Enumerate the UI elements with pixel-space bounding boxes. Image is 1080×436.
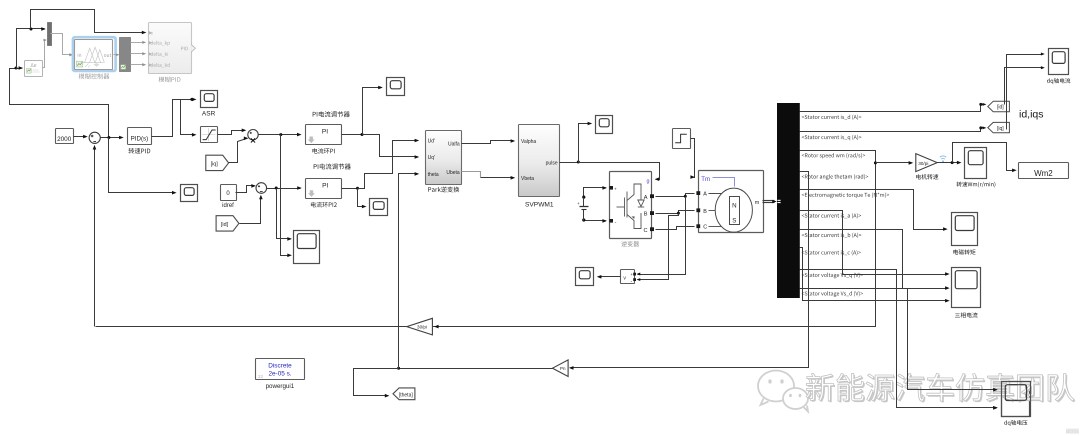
wire PI2 output branch to small scope (342, 187, 367, 209)
svg-text:g: g (647, 178, 650, 184)
voltage measurement block v+- (621, 270, 637, 286)
svg-text:2e-05 s.: 2e-05 s. (268, 371, 291, 378)
wire PI q output: branch up to scope (342, 86, 383, 136)
bus label Stator current is_b (802, 233, 862, 238)
bus label Stator current is_d (802, 115, 862, 120)
bus label Electromagnetic torque Te (802, 192, 889, 198)
subsystem 模糊PID (fuzzy PID, faded) (149, 23, 196, 74)
label 逆变器 (621, 241, 639, 247)
scope 转速Wm(r/min) (965, 148, 987, 179)
scope dq轴电压 (1002, 382, 1030, 417)
svg-text:Ubeta: Ubeta (446, 170, 460, 176)
scope ASR (201, 91, 218, 108)
svg-text:v: v (623, 276, 626, 282)
wire error signal to fuzzy section (from speed-error junction, up and left) (10, 66, 109, 137)
svg-text:A: A (703, 192, 707, 198)
svg-text:+: + (630, 272, 633, 277)
svg-text:Vbeta: Vbeta (521, 176, 534, 182)
wire [id] to sum S3 bottom input (240, 195, 263, 224)
watermark text 新能源汽车仿真团队 (806, 373, 1075, 402)
block delta-e (de computation) (25, 61, 43, 77)
wire wm row to gain 30/pi and down to speed feedback (96, 151, 914, 327)
svg-text:[iq]: [iq] (211, 161, 219, 167)
gain 30/pi (rad/s to rpm, right-pointing) (916, 154, 937, 172)
wire saturation to sum S2 (218, 129, 247, 135)
watermark WeChat logo (758, 371, 808, 412)
wire inverter A to motor A with tap (656, 194, 695, 198)
svg-text:PI: PI (322, 182, 328, 189)
wire overlay Vs_q/Vs_d over watermark (897, 367, 1031, 417)
svg-text:2000: 2000 (57, 136, 72, 143)
sum S3 (d-current error) (256, 183, 267, 194)
svg-text:Pn: Pn (560, 366, 566, 371)
gain 30/pi (left-pointing, feedback path) (407, 318, 439, 335)
label 三相电流 (955, 312, 978, 317)
bus label Stator current is_c (802, 250, 861, 255)
label Park逆变换 (428, 187, 459, 193)
wire PI q output to Park Uq input (363, 135, 420, 159)
powergui block Discrete 2e-05 s. (256, 359, 305, 380)
svg-text:30/pi: 30/pi (417, 324, 427, 329)
inverter block 逆变器 (universal bridge) (609, 172, 654, 239)
svg-text:powergui1: powergui1 (266, 383, 295, 390)
svg-text:Ud': Ud' (428, 139, 435, 145)
wire fuzzy out to demux (114, 53, 120, 56)
label powergui1 (266, 383, 295, 390)
from tag [id] (left) (216, 216, 239, 231)
svg-text:idref: idref (222, 203, 234, 209)
scope (Ud output) (370, 199, 388, 216)
goto tag [id] (top right) (988, 101, 1010, 111)
wire S2 output to PI (current PI q) (259, 133, 302, 137)
svg-text:30/pi: 30/pi (918, 161, 928, 166)
wire inverter B to motor B with tap (656, 211, 695, 215)
sum S2 (q-current error) (248, 130, 258, 143)
wire [iq] to sum S2 minus input (229, 137, 249, 163)
svg-text:C: C (643, 228, 647, 234)
svg-text:ASR: ASR (202, 110, 216, 117)
bus label Stator voltage Vs_d (802, 291, 863, 297)
to-workspace block Wm2 (1019, 163, 1069, 179)
wire demux to delta_kd (131, 63, 147, 66)
constant 0 idref (221, 185, 237, 201)
svg-text:id,iqs: id,iqs (1019, 109, 1044, 121)
wire mux output to fuzzy controller in (51, 34, 74, 57)
goto tag [iq] (top right) (988, 122, 1010, 132)
wire speed feedback up into sum S1 (93, 145, 97, 327)
PMSM motor block (696, 171, 763, 233)
svg-text:Valpha: Valpha (521, 139, 536, 145)
label idref (222, 203, 234, 209)
wire id branch up to dq current scope input 2 (1005, 66, 1045, 104)
wire PI2 output to Park Ud input (358, 139, 420, 189)
block Park逆变换 (inverse Park transform) (426, 131, 462, 185)
wire is_a to three-phase scope input 1 (800, 211, 950, 276)
svg-text:B: B (703, 209, 707, 215)
bus label Stator voltage Vs_q (802, 273, 863, 279)
wire iq branch up to dq current scope input 1 (1007, 52, 1045, 129)
scope 电磁转矩 (952, 213, 978, 246)
wire branch down to saturation (181, 100, 197, 137)
DC voltage source (battery) (577, 186, 607, 223)
label 电机转速 (916, 174, 938, 179)
svg-text:B: B (644, 212, 648, 218)
wire S1 error branch down to error scope (109, 138, 177, 195)
wire thetam row down to gain Pn (569, 172, 809, 370)
sum S1 (speed error) (89, 132, 100, 143)
wire Ubeta to Vbeta (gray then black) (462, 172, 516, 180)
wire motor m output (bus) to bus selector (763, 200, 777, 204)
scope (PWM pulses) (596, 116, 613, 134)
wire voltage measurement to scope (597, 275, 621, 279)
title PI电流调节器 (q loop) (313, 111, 350, 117)
scope (dual input, current errors) (294, 231, 320, 264)
label 电流环PI2 (311, 202, 337, 208)
scope (Uq output) (387, 78, 405, 96)
wire Vs_q down to dq voltage scope input 2 (800, 270, 998, 410)
label 电流环PI (312, 148, 334, 154)
wire step to motor Tm (690, 139, 695, 179)
label dq轴电流 (1047, 78, 1070, 84)
svg-text:SVPWM1: SVPWM1 (525, 201, 554, 208)
label 电磁转矩 (953, 249, 975, 254)
bus label Rotor speed wm (802, 153, 865, 159)
wire S1 output to PID(s) (101, 136, 124, 140)
svg-text:PID(s): PID(s) (131, 136, 149, 143)
block PID(s) 转速PID (128, 128, 152, 145)
svg-text:+: + (614, 187, 617, 192)
corner watermark fragment (1066, 429, 1079, 434)
svg-text:pulse: pulse (546, 161, 558, 167)
title PI电流调节器 (d loop) (314, 164, 351, 170)
svg-text:Uq': Uq' (428, 155, 435, 161)
svg-text:+: + (577, 201, 580, 206)
svg-text:theta: theta (428, 172, 439, 178)
svg-text:Discrete: Discrete (268, 363, 292, 370)
svg-text:PI: PI (322, 129, 328, 136)
svg-text:Ualfa: Ualfa (448, 142, 460, 148)
text id,iqs (1019, 109, 1044, 121)
label SVPWM1 (525, 201, 554, 208)
wire pulse output, branch to PWM scope (560, 122, 593, 164)
wire branch over scope to Wm2 (953, 143, 1017, 173)
svg-text:m: m (755, 200, 760, 206)
label 模糊控制器 (79, 73, 110, 79)
wire pulse to inverter gate g (579, 163, 660, 182)
wire Pn output left, branch up to Park theta (397, 172, 552, 370)
wire inverter C to motor C (656, 227, 695, 230)
block PI 电流环PI (q-axis current PI) (306, 125, 342, 145)
wire phase B tap down to voltage measurement - (637, 214, 679, 282)
step block (load torque step) (673, 129, 691, 149)
demux D1 (vertical bar after fuzzy controller) (120, 38, 131, 72)
svg-text:[id]: [id] (997, 105, 1004, 111)
scope dq轴电流 (1049, 49, 1069, 75)
wire gain to speed scope (938, 161, 962, 165)
block PI 电流环PI2 (d-axis current PI) (306, 179, 342, 199)
block SVPWM1 (519, 125, 560, 197)
wire error to fuzzy-PID e input (top route) (31, 10, 147, 35)
wire Vs_d down to dq voltage scope input 1 (800, 289, 998, 392)
label ASR (202, 110, 216, 117)
gain Pn (pole pairs, left-pointing) (553, 360, 569, 377)
wire idref to sum S3 (236, 184, 256, 192)
fuzzy logic controller block (selected, blue halo) 模糊控制器 (73, 37, 116, 71)
scope (speed error, unlabeled) (181, 185, 198, 202)
wire demux to delta_ki (131, 52, 147, 55)
bus selector (black bar) (777, 103, 800, 298)
scope 三相电流 (952, 268, 981, 308)
svg-text:[iq]: [iq] (997, 126, 1004, 132)
wire PID(s) output up to ASR scope (152, 98, 197, 137)
wire Ualfa to Valpha (462, 139, 516, 143)
bus label Stator current is_q (802, 135, 862, 141)
svg-text:N: N (732, 202, 736, 209)
svg-text:22: 22 (258, 374, 264, 379)
wire is_q to goto [iq] (800, 126, 987, 131)
mux M1 (2-in vertical bar) (48, 23, 52, 46)
wire S3 output to PI2 (267, 186, 302, 190)
svg-text:Wm2: Wm2 (1034, 169, 1053, 178)
svg-text:[theta]: [theta] (399, 392, 414, 398)
wire S3 branch down to dual scope input 1 (277, 189, 292, 241)
wire S2 branch down to dual scope input 2 (281, 135, 292, 258)
wire delta-e output to mux input 2 (43, 39, 47, 68)
wire demux to delta_kp (131, 41, 147, 44)
svg-text:-: - (615, 219, 617, 225)
scope (phase voltage) (576, 268, 594, 286)
wire error branch to mux input 1 (17, 27, 46, 68)
svg-text:C: C (703, 225, 707, 231)
label 模糊PID (159, 77, 181, 83)
label dq轴电压 (1004, 420, 1027, 426)
wire theta to Goto [theta] (354, 369, 399, 398)
wire Te row to torque scope (800, 190, 948, 231)
wifi signal-logging badge (940, 156, 946, 162)
label 转速Wm(r/min) (957, 182, 996, 188)
wire 2000 to sum S1 (74, 135, 88, 139)
bus label Stator current is_a (802, 213, 861, 218)
svg-text:Tm: Tm (701, 177, 710, 183)
constant block 2000 (speed reference) (56, 129, 74, 144)
wire is_c to three-phase scope input 3 (800, 248, 950, 303)
wire phase A tap down to voltage measurement + (637, 197, 686, 276)
wire is_d to goto [id] (800, 103, 987, 112)
goto tag [theta] (393, 388, 415, 400)
svg-text:[id]: [id] (221, 222, 229, 228)
svg-text:S: S (732, 217, 736, 224)
label 转速PID (128, 148, 150, 154)
wire is_b to three-phase scope input 2 (800, 230, 950, 290)
saturation block (limiter) (201, 127, 218, 143)
from tag [iq] (left) (206, 155, 229, 170)
bus label Rotor angle thetam (802, 174, 868, 180)
